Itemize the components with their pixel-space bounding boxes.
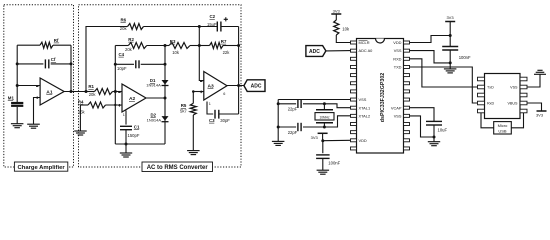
node A3 inverting column top: [198, 25, 201, 28]
svg-text:R6: R6: [121, 17, 127, 22]
svg-text:20k: 20k: [120, 26, 128, 31]
wire A3 noninverting: [193, 91, 204, 93]
ground at A1 noninverting input: [27, 124, 40, 128]
power 3V3 at VDD left: [311, 133, 328, 140]
capacitor 100nF right: [442, 47, 471, 61]
node A3 output: [237, 84, 240, 87]
wire 100nF left top: [322, 141, 324, 154]
wire A3 inverting vertical: [199, 27, 204, 81]
wire left feedback vertical: [16, 45, 18, 85]
capacitor C3: [209, 110, 230, 123]
wire Cf rail: [17, 63, 71, 65]
wire C4 row: [115, 63, 165, 65]
svg-text:C1: C1: [134, 124, 140, 129]
capacitor 22pF upper: [288, 100, 301, 112]
svg-text:RxD: RxD: [487, 101, 495, 105]
wire R4 to ground: [79, 105, 81, 131]
svg-text:30pF: 30pF: [220, 118, 230, 123]
node R7 right: [237, 44, 240, 47]
wire XTAL rail: [278, 100, 350, 142]
svg-text:C4: C4: [119, 52, 125, 57]
A3 pin 1 wire: [207, 102, 213, 115]
svg-text:M1: M1: [8, 95, 15, 100]
power 3V3 at MCLR pullup: [331, 9, 341, 20]
svg-text:22k: 22k: [223, 50, 231, 55]
wire 100nF right top: [449, 36, 451, 47]
wire RXD route: [410, 59, 478, 87]
ground above U2: [534, 70, 546, 74]
svg-text:22pF: 22pF: [288, 107, 298, 112]
node rail line1: [277, 102, 280, 105]
svg-text:3V3: 3V3: [311, 135, 319, 140]
ground below R4: [74, 131, 87, 135]
node rail line2: [277, 126, 280, 129]
wire USB D- right: [511, 113, 523, 128]
ground below 100nF right: [444, 69, 457, 73]
node C4 left: [114, 63, 117, 66]
ground below M1: [11, 124, 24, 128]
svg-text:VDD: VDD: [359, 138, 367, 143]
wire VSS19 route: [410, 116, 435, 137]
svg-text:XTAL2: XTAL2: [359, 114, 371, 119]
svg-text:AC to RMS Converter: AC to RMS Converter: [147, 165, 209, 171]
wire AVSS right: [410, 51, 451, 63]
charge amplifier dashed enclosure: [4, 5, 74, 167]
U2 pin labels: [487, 85, 518, 105]
wire USB D+ left: [481, 113, 494, 128]
wire Rf top rail: [17, 44, 71, 46]
wire line2: [278, 116, 350, 127]
ground below C1: [120, 153, 132, 157]
svg-text:100nF: 100nF: [459, 55, 471, 60]
svg-text:Cf: Cf: [51, 57, 56, 62]
node R5 top: [192, 90, 195, 93]
U1 pin labels: [359, 40, 402, 143]
svg-text:XTAL1: XTAL1: [359, 105, 371, 110]
micro USB connector: [494, 122, 512, 134]
node A1 output: [70, 90, 73, 93]
node VDD left: [321, 139, 324, 142]
op-amp A3: [200, 72, 227, 101]
svg-text:15k: 15k: [78, 109, 86, 114]
wire 100nF right bottom: [449, 50, 451, 63]
node A3 inverting column mid: [198, 44, 201, 47]
capacitor Cf: [45, 57, 56, 68]
node gnd right: [449, 61, 452, 64]
svg-text:1: 1: [123, 113, 125, 117]
wire 10uF bottom: [433, 125, 435, 142]
svg-text:150pF: 150pF: [128, 133, 140, 138]
svg-text:R3: R3: [170, 39, 176, 44]
svg-text:R2: R2: [128, 37, 134, 42]
ground below R5: [187, 151, 200, 155]
wire feedback vertical x115: [114, 46, 116, 145]
wire C1 gnd stem: [125, 144, 127, 153]
svg-text:3V3: 3V3: [536, 112, 544, 117]
wire ADC to AN0: [326, 50, 351, 52]
svg-text:VBUS: VBUS: [507, 101, 518, 105]
wire right feedback vertical: [70, 45, 72, 91]
ground below 10uF: [428, 142, 440, 146]
svg-text:VCAP: VCAP: [391, 105, 402, 110]
wire TXD route: [410, 67, 478, 103]
power 3V3 right: [445, 15, 455, 35]
wire A1 noninverting stub: [34, 98, 41, 125]
svg-text:10uF: 10uF: [438, 127, 448, 132]
svg-text:6: 6: [223, 92, 225, 96]
svg-text:VSS: VSS: [394, 114, 402, 119]
svg-text:C3: C3: [209, 118, 215, 123]
wire VCAP route: [410, 108, 435, 122]
svg-text:10k: 10k: [172, 50, 180, 55]
svg-text:10pF: 10pF: [117, 66, 127, 71]
resistor R3: [165, 39, 199, 55]
microcontroller U1 dsPIC33FJ32GP302: [351, 39, 410, 154]
net tag ADC out: [244, 80, 265, 92]
net tag ADC in: [306, 46, 326, 57]
node R2-D1 junction: [164, 44, 167, 47]
node 3V3 right: [449, 34, 452, 37]
op-amp A1: [36, 78, 64, 105]
wire R6 to A3 node: [144, 26, 200, 28]
svg-text:100nF: 100nF: [328, 161, 340, 166]
wire U2 VSS to ground: [527, 75, 540, 88]
svg-text:Charge Amplifier: Charge Amplifier: [17, 165, 65, 171]
svg-text:20k: 20k: [125, 47, 133, 52]
svg-text:R7: R7: [221, 39, 227, 44]
svg-text:20k: 20k: [89, 92, 97, 97]
charge amplifier title box: [14, 162, 67, 171]
USB bridge U2: [478, 74, 528, 119]
svg-text:VSS: VSS: [510, 85, 518, 89]
wire VDD left pin: [323, 139, 351, 141]
svg-text:dsPIC33FJ32GP302: dsPIC33FJ32GP302: [380, 73, 386, 123]
resistor R5: [180, 92, 196, 151]
AC to RMS title box: [142, 162, 213, 172]
svg-text:1N914A: 1N914A: [146, 83, 161, 88]
capacitor C1: [120, 124, 140, 138]
crystal 10MHz: [315, 104, 334, 127]
node A2 inverting input: [114, 90, 117, 93]
wire VDD right: [410, 36, 451, 43]
node R4 crossing: [114, 104, 116, 106]
wire A3 feedback vertical: [238, 27, 240, 115]
svg-text:VDD: VDD: [393, 40, 401, 45]
ground rail: [115, 143, 165, 145]
svg-text:3V3: 3V3: [333, 9, 341, 14]
power 3V3 at VBUS: [536, 111, 547, 117]
svg-text:15uF: 15uF: [207, 22, 217, 27]
svg-text:3V3: 3V3: [446, 15, 454, 20]
diode D1: [146, 78, 168, 87]
capacitor C2: [199, 14, 238, 31]
svg-text:Rf: Rf: [54, 38, 59, 43]
op-amp A2: [118, 84, 146, 112]
wire MCLR: [336, 35, 350, 43]
svg-text:VSS: VSS: [359, 97, 367, 102]
capacitor C4: [117, 52, 139, 71]
capacitor 22pF lower: [288, 123, 301, 135]
wire C3 to output: [219, 113, 239, 115]
wire line1: [278, 104, 350, 108]
capacitor 100nF left: [316, 155, 341, 166]
wire A2 output: [146, 97, 165, 99]
resistor R7: [199, 39, 238, 55]
node crystal bottom: [323, 126, 326, 129]
diode D2: [147, 113, 169, 123]
capacitor 10uF: [426, 121, 447, 132]
svg-text:VSS: VSS: [394, 48, 402, 53]
wire A1 inverting input: [17, 85, 40, 87]
wire R2 row: [115, 45, 165, 47]
svg-text:R1: R1: [88, 84, 94, 89]
wire U2 VBUS to 3V3: [527, 103, 542, 111]
AC to RMS dashed enclosure: [79, 5, 242, 167]
svg-text:10k: 10k: [342, 27, 350, 32]
node VCAP gnd: [433, 136, 436, 139]
svg-text:1N914A: 1N914A: [147, 118, 162, 123]
wire A1 output: [64, 91, 86, 93]
resistor 10k pullup: [334, 20, 350, 35]
node Cf left: [16, 62, 19, 65]
svg-text:TXD: TXD: [394, 65, 402, 70]
svg-text:1: 1: [209, 102, 211, 106]
microphone M1: [8, 95, 23, 107]
svg-text:C2: C2: [210, 14, 216, 19]
wire up to R6: [86, 27, 128, 92]
svg-text:22pF: 22pF: [288, 130, 298, 135]
wire A3 output to ADC: [227, 85, 244, 87]
wire C1 to ground rail: [125, 130, 127, 144]
svg-text:RXD: RXD: [393, 56, 401, 61]
svg-text:USB: USB: [498, 128, 507, 133]
node A1 inverting input: [16, 84, 19, 87]
wire R1 row: [86, 91, 122, 93]
svg-text:TxD: TxD: [487, 85, 494, 89]
wire 100nF left bottom: [322, 159, 324, 171]
ground below rail: [272, 141, 285, 145]
node C1 ground: [125, 143, 128, 146]
svg-text:ADC A0: ADC A0: [359, 48, 374, 53]
A3 pin 6 label: [223, 92, 225, 96]
svg-text:R4: R4: [78, 99, 84, 104]
resistor R2: [125, 37, 147, 52]
svg-text:ADC: ADC: [309, 49, 320, 55]
wire gnd right stem: [449, 63, 451, 69]
node signal split: [85, 90, 88, 93]
svg-text:ADC: ADC: [251, 84, 262, 90]
A2 pin 1 wire: [123, 111, 126, 125]
resistor R1: [88, 84, 112, 97]
wire M1 bottom: [16, 107, 18, 124]
node rectifier output: [164, 97, 167, 100]
node crystal top: [323, 102, 326, 105]
svg-text:5k7: 5k7: [180, 108, 187, 113]
node Cf right: [70, 62, 73, 65]
wire M1 top: [16, 86, 18, 103]
resistor R6: [120, 17, 144, 30]
ground below 100nF left: [317, 170, 330, 174]
resistor Rf: [40, 38, 59, 48]
svg-text:10MHz: 10MHz: [319, 115, 330, 119]
resistor R4: [78, 99, 122, 114]
wire diode column: [164, 46, 166, 145]
node C4 right: [164, 63, 167, 66]
